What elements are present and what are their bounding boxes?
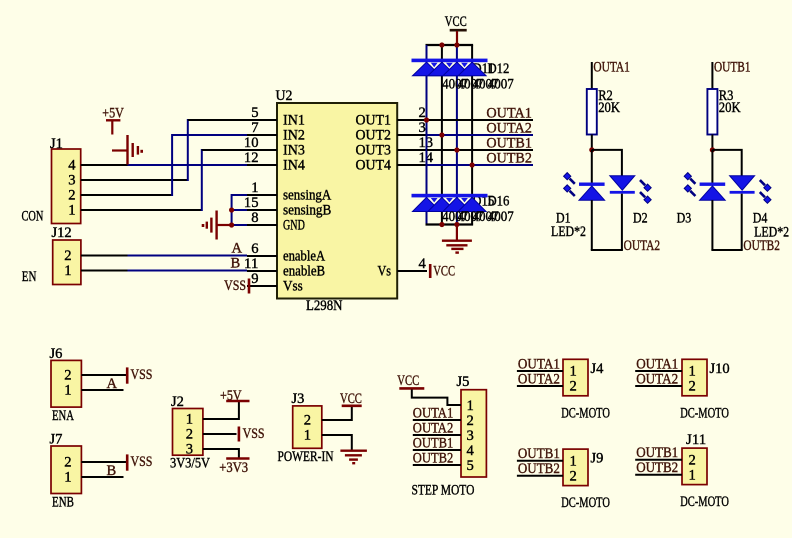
svg-text:IN1: IN1 [283,113,305,129]
svg-text:OUT2: OUT2 [356,128,392,144]
svg-text:OUTB1: OUTB1 [413,435,454,451]
pin U2 3 [397,120,427,136]
connector J11 [682,432,707,485]
svg-text:VSS: VSS [131,367,153,383]
svg-text:Vss: Vss [283,279,303,295]
pin J1.2 [81,194,106,196]
svg-text:J12: J12 [52,225,72,241]
LED D1 [564,173,605,201]
connector J9 [563,449,603,486]
svg-text:2: 2 [689,452,696,468]
svg-text:2: 2 [570,379,577,395]
node LED junction D1 [589,147,594,152]
pin U2 15 [244,195,277,211]
wire vertical bus OUT2 [441,45,443,225]
power VSS (U2 Vss) [224,278,277,294]
svg-text:J7: J7 [50,432,63,448]
svg-text:OUTB2: OUTB2 [413,450,454,466]
wire OUT3 row / net label OUTB1 [427,135,533,152]
power VSS (J2) [239,426,265,442]
svg-text:IN3: IN3 [283,143,305,159]
svg-text:15: 15 [244,195,259,211]
svg-text:J11: J11 [686,432,706,448]
svg-text:2: 2 [186,427,193,443]
wire OUT1 row / net label OUTA1 [427,105,533,122]
wire J1.4 to IN4 [128,164,248,166]
svg-text:sensingB: sensingB [283,203,332,219]
svg-text:LED*2: LED*2 [754,224,789,240]
svg-text:STEP MOTO: STEP MOTO [412,483,475,499]
pin J5.3 / net label OUTA2 [413,420,461,436]
diodes D13-D16 (4007) flyback bottom [412,194,514,226]
svg-text:OUT3: OUT3 [356,143,392,159]
svg-text:3: 3 [68,173,75,189]
power +5V [102,105,124,134]
pin J3.1 wire to ground [322,435,352,450]
wire junction to D4 [712,150,741,176]
svg-text:OUTB1: OUTB1 [714,60,751,76]
svg-text:DC-MOTO: DC-MOTO [680,405,729,421]
wire bottom rail OUTB2 [711,249,742,251]
power VSS (J7) [127,454,152,471]
pin U2 2 [397,105,427,121]
svg-text:D16: D16 [488,194,510,210]
svg-text:VSS: VSS [224,278,246,294]
svg-text:+3V3: +3V3 [219,460,248,476]
wire vertical bus OUT3 [456,45,458,225]
connector J2 [171,394,203,458]
pin J11.2 / net label OUTB2 [635,460,682,476]
connector J6 [50,346,82,407]
pin J5.4 / net label OUTB1 [413,435,461,451]
svg-text:J4: J4 [591,361,605,377]
pin U2 11 [244,256,277,272]
power VSS (J6) [127,367,152,384]
svg-text:VCC: VCC [433,263,455,279]
pin J10.1 / net label OUTA1 [635,356,682,372]
wire J1.3 to IN1 [106,119,248,181]
pin J7.1 / net label B [81,463,123,479]
svg-text:OUTA2: OUTA2 [413,420,454,436]
svg-text:8: 8 [251,210,258,226]
pin J6.2 [81,374,127,376]
pin J1.3 [81,179,106,181]
ground (near +5V) [112,135,142,165]
pin U2 8 [247,210,277,226]
svg-text:LED*2: LED*2 [551,224,586,240]
svg-text:D2: D2 [633,211,648,227]
svg-text:1: 1 [64,383,71,399]
pin J11.1 / net label OUTB1 [635,445,682,461]
svg-text:enableB: enableB [283,264,325,280]
svg-text:OUTB2: OUTB2 [636,460,678,476]
power VCC (U2 Vs) [430,263,455,279]
pin J3.2 wire to VCC [322,407,352,420]
pin J7.2 [81,461,127,463]
svg-text:VSS: VSS [243,426,265,442]
svg-text:4: 4 [419,256,427,272]
wire VCC rail (top) [426,44,474,46]
wire D4 to bottom rail [741,194,743,250]
node GND junction [229,222,234,227]
diodes D9-D12 (4007) flyback top [412,59,514,93]
wire OUT4 row / net label OUTB2 [427,150,533,167]
pin J6.1 / net label A [81,376,123,392]
wire left branch to D1 [591,150,593,183]
pin J1.4 [81,164,128,166]
power VCC (J3) [340,391,362,407]
svg-text:GND: GND [283,218,305,234]
svg-text:1: 1 [251,180,258,196]
svg-text:J5: J5 [457,374,470,390]
pin U2 13 [397,135,433,151]
svg-text:1: 1 [304,428,311,444]
svg-text:J10: J10 [710,361,730,377]
svg-text:POWER-IN: POWER-IN [278,449,334,465]
wire vertical bus OUT1 [426,45,428,225]
wire J1.1 to IN3 [106,149,248,211]
pin J12.2 [81,255,128,257]
svg-text:OUT1: OUT1 [356,113,392,129]
svg-text:12: 12 [244,150,259,166]
pin J9.1 / net label OUTB1 [517,446,563,462]
svg-text:2: 2 [467,413,474,429]
svg-text:A: A [232,241,243,257]
svg-text:U2: U2 [276,88,293,104]
svg-text:1: 1 [68,203,75,219]
wire bottom rail OUTA2 [591,249,623,251]
svg-text:9: 9 [251,271,258,287]
svg-text:OUT4: OUT4 [356,158,392,174]
svg-text:1: 1 [689,364,696,380]
wire vertical bus OUT4 [471,45,473,225]
svg-text:3: 3 [467,428,474,444]
power VCC (top) [445,14,467,45]
svg-text:2: 2 [64,455,71,471]
svg-text:D12: D12 [488,61,510,77]
svg-text:OUTB2: OUTB2 [743,238,780,254]
wire ground rail (bottom) [426,223,474,225]
svg-text:EN: EN [22,269,37,285]
node OUT4 junction [470,162,475,167]
svg-text:OUTA2: OUTA2 [636,371,678,387]
wire left branch to D3 [711,150,713,183]
pin U2 10 [244,135,277,151]
svg-text:J6: J6 [50,346,63,362]
svg-text:B: B [231,256,241,272]
svg-text:+5V: +5V [102,105,124,121]
svg-text:OUTB1: OUTB1 [518,446,560,462]
wire OUT2 row / net label OUTA2 [427,120,533,137]
svg-text:J2: J2 [171,394,184,410]
svg-text:1: 1 [689,467,696,483]
pin J4.2 / net label OUTA2 [517,371,563,387]
svg-text:4007: 4007 [488,209,514,225]
pin U2 4 [397,256,427,272]
pin J5.5 / net label OUTB2 [413,450,461,466]
wire OUTA1 down to R2 [591,62,593,89]
wire D1 to bottom rail [591,200,593,250]
resistor R3 20K [707,88,741,135]
wire R2 to junction [591,135,593,150]
svg-text:2: 2 [570,468,577,484]
pin U2 1 [247,180,277,196]
node OUT3 junction [454,147,459,152]
wire OUTB1 down to R3 [711,62,713,89]
wire sensingB [232,209,247,211]
svg-text:1: 1 [570,364,577,380]
pin J9.2 / net label OUTB2 [517,461,563,477]
svg-text:CON: CON [22,209,44,225]
svg-text:11: 11 [244,256,259,272]
svg-text:2: 2 [68,188,75,204]
wire sensingA [232,195,247,225]
svg-text:J3: J3 [292,391,305,407]
svg-text:IN4: IN4 [283,158,306,174]
pin J2.1 wire to +5V [203,402,239,419]
svg-text:6: 6 [251,241,258,257]
wire J12.2 to enableA [128,255,248,257]
wire junction to D2 [592,150,622,176]
pin J12.1 [81,270,128,272]
svg-text:2: 2 [64,368,71,384]
node sensingB junction [229,207,234,212]
connector J7 [50,432,82,494]
connector J1 [50,136,81,224]
svg-text:20K: 20K [598,100,620,116]
pin J10.2 / net label OUTA2 [635,371,682,387]
svg-text:1: 1 [467,398,474,414]
svg-text:A: A [107,376,118,392]
svg-text:OUTA1: OUTA1 [636,356,678,372]
svg-text:5: 5 [251,105,258,121]
svg-text:5: 5 [467,458,474,474]
pin J2.2 wire to VSS [203,433,237,435]
svg-text:J9: J9 [591,451,604,467]
svg-text:10: 10 [244,135,259,151]
resistor R2 20K [587,88,621,135]
svg-text:1: 1 [186,412,193,428]
connector J12 [52,225,81,285]
svg-text:2: 2 [64,248,71,264]
node OUT2 junction [439,132,444,137]
power +3V3 (J2) [219,459,249,477]
connector J3 [292,391,322,448]
connector J10 [682,359,730,396]
svg-text:VCC: VCC [445,14,467,30]
svg-text:OUTB2: OUTB2 [486,150,532,167]
pin U2 5 [247,105,277,121]
node OUT1 junction [424,117,429,122]
svg-text:sensingA: sensingA [283,188,332,204]
svg-text:ENB: ENB [52,495,74,511]
ground (J3) [340,451,367,464]
pin U2 14 [397,150,434,166]
svg-text:OUTA2: OUTA2 [518,371,560,387]
ground (diode cluster) [442,225,472,253]
power +5V (J2) [220,388,250,404]
connector J4 [563,359,604,396]
wire R3 to junction [711,135,713,150]
op-amp U2 L298N body [276,88,398,314]
svg-text:IN2: IN2 [283,128,305,144]
svg-text:J1: J1 [50,136,63,152]
power VCC (J5) [397,373,424,389]
pin J4.1 / net label OUTA1 [517,356,563,372]
node VCC rail junctions [439,42,459,47]
wire GND [232,224,247,226]
svg-text:2: 2 [304,413,311,429]
LED D2 [610,176,651,204]
wire D2 to bottom rail [621,194,623,250]
svg-text:Vs: Vs [378,264,392,280]
LED D4 [730,176,771,204]
svg-text:1: 1 [64,263,71,279]
svg-text:4: 4 [68,158,76,174]
svg-text:20K: 20K [719,100,741,116]
wire J12.1 to enableB [128,270,248,272]
svg-text:VCC: VCC [397,373,419,389]
node LED junction D3 [710,147,715,152]
svg-text:VSS: VSS [131,454,153,470]
svg-text:OUTA2: OUTA2 [624,238,661,254]
connector J5 [457,374,487,477]
wire J5.1 to VCC [412,390,461,406]
svg-text:OUTA1: OUTA1 [518,356,560,372]
svg-text:OUTA1: OUTA1 [413,405,454,421]
svg-text:B: B [107,463,117,479]
svg-text:L298N: L298N [306,298,343,314]
svg-text:4007: 4007 [488,77,514,93]
pin U2 7 [247,120,277,136]
svg-text:DC-MOTO: DC-MOTO [561,495,610,511]
LED D3 [684,173,725,201]
svg-text:OUTB2: OUTB2 [518,461,560,477]
svg-text:4: 4 [467,443,475,459]
svg-text:3V3/5V: 3V3/5V [170,456,210,472]
svg-text:1: 1 [64,470,71,486]
svg-text:7: 7 [251,120,258,136]
node ground rail junctions [439,222,459,227]
svg-text:2: 2 [689,379,696,395]
svg-text:OUTA1: OUTA1 [593,60,630,76]
pin J1.1 [81,209,106,211]
svg-text:1: 1 [570,453,577,469]
wire D3 to bottom rail [711,200,713,250]
pin U2 6 [247,241,277,257]
svg-text:DC-MOTO: DC-MOTO [561,405,610,421]
pin U2 12 [244,150,277,166]
pin U2 9 [247,271,277,287]
svg-text:D3: D3 [677,211,692,227]
svg-text:OUTB1: OUTB1 [636,445,678,461]
ground (U2 GND pin) [203,211,232,240]
svg-text:3: 3 [419,120,426,136]
wire J1.2 to IN2 [106,134,248,196]
pin J2.3 wire to +3V3 [203,449,239,458]
pin J5.2 / net label OUTA1 [413,405,461,421]
svg-text:ENA: ENA [52,408,74,424]
svg-text:enableA: enableA [283,249,325,265]
svg-text:DC-MOTO: DC-MOTO [680,494,729,510]
